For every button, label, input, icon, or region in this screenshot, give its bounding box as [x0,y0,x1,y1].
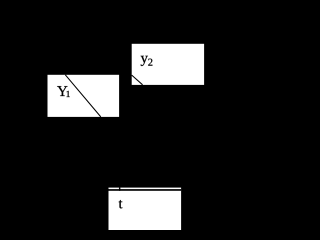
label t: glyph t [119,200,123,208]
plot fragment box t (time axis) [109,188,182,230]
plot fragment box y2 [132,44,204,85]
label Y1: glyph Y [57,86,67,96]
plot fragment box Y1 [48,75,120,117]
curve y2 (corner segment) [132,75,143,85]
t axis line [109,189,182,190]
label Y1: subscript glyph 1 [67,91,70,97]
label y2: glyph y [141,56,148,66]
curve Y1 (falling line) [65,75,101,117]
label y2: subscript glyph 2 [148,59,152,66]
axis tick [119,188,120,191]
